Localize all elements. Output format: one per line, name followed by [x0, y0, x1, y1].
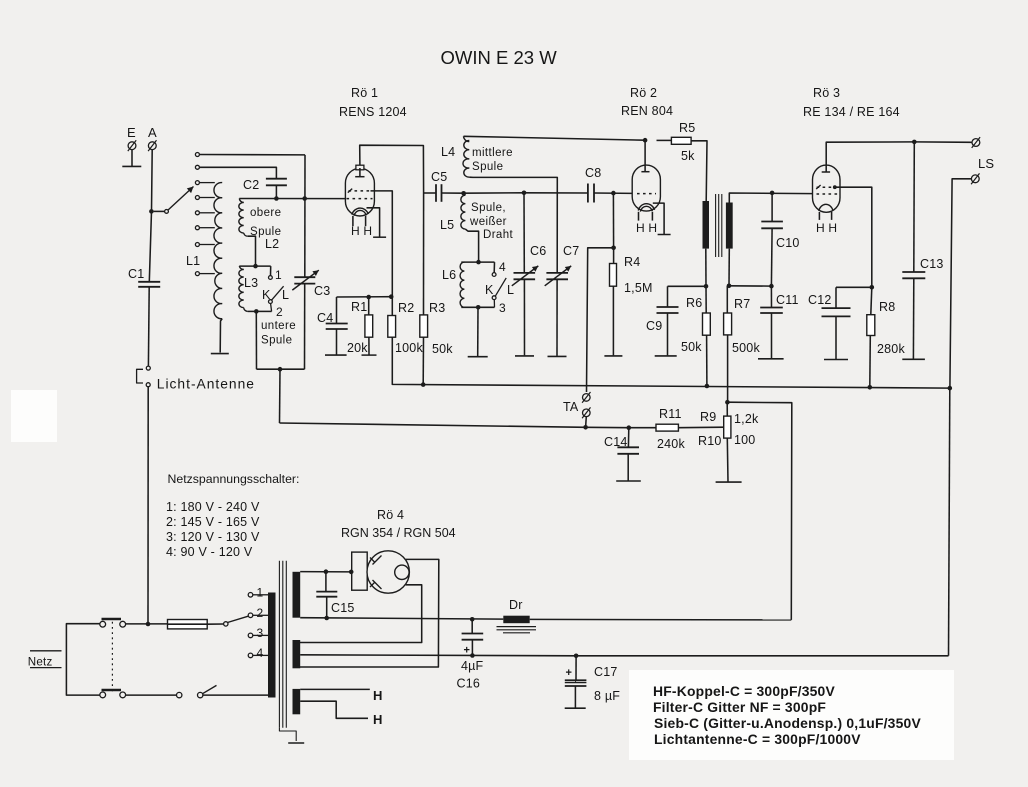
- svg-text:R2: R2: [398, 301, 414, 315]
- svg-text:R3: R3: [429, 301, 445, 315]
- svg-text:Spule,: Spule,: [471, 202, 506, 214]
- svg-text:RENS 1204: RENS 1204: [339, 105, 407, 119]
- svg-text:Netz: Netz: [28, 656, 53, 669]
- svg-text:Filter-C Gitter NF = 300pF: Filter-C Gitter NF = 300pF: [653, 699, 826, 715]
- svg-text:TA: TA: [563, 400, 579, 414]
- svg-text:L5: L5: [440, 218, 454, 232]
- svg-text:untere: untere: [261, 320, 296, 332]
- svg-text:20k: 20k: [347, 341, 368, 355]
- svg-text:1,2k: 1,2k: [734, 412, 759, 426]
- svg-text:C1: C1: [128, 267, 144, 281]
- svg-text:2: 2: [276, 305, 283, 319]
- svg-text:L6: L6: [442, 268, 456, 282]
- svg-text:50k: 50k: [681, 340, 702, 354]
- svg-text:100k: 100k: [395, 341, 423, 355]
- svg-text:C10: C10: [776, 236, 800, 250]
- svg-text:L4: L4: [441, 145, 455, 159]
- svg-text:E: E: [127, 125, 136, 140]
- svg-text:R8: R8: [879, 300, 895, 314]
- svg-text:280k: 280k: [877, 342, 905, 356]
- svg-text:C9: C9: [646, 319, 662, 333]
- svg-text:weißer: weißer: [469, 216, 507, 228]
- svg-text:1,5M: 1,5M: [624, 281, 653, 295]
- svg-text:3: 120 V - 130 V: 3: 120 V - 130 V: [166, 530, 260, 544]
- svg-text:C7: C7: [563, 244, 579, 258]
- svg-text:obere: obere: [250, 207, 281, 219]
- svg-text:Rö 3: Rö 3: [813, 86, 840, 100]
- svg-text:C13: C13: [920, 257, 944, 271]
- svg-text:R9: R9: [700, 410, 716, 424]
- svg-text:3: 3: [257, 626, 264, 640]
- svg-text:8 µF: 8 µF: [594, 689, 620, 703]
- svg-text:4: 4: [257, 646, 264, 660]
- svg-text:Dr: Dr: [509, 598, 523, 612]
- svg-text:R1: R1: [351, 300, 367, 314]
- svg-text:50k: 50k: [432, 342, 453, 356]
- svg-text:C12: C12: [808, 293, 832, 307]
- svg-text:C11: C11: [776, 293, 799, 307]
- svg-text:4: 4: [499, 260, 506, 274]
- svg-text:+: +: [566, 667, 573, 679]
- svg-text:2: 145 V - 165 V: 2: 145 V - 165 V: [166, 515, 260, 529]
- svg-text:Rö 2: Rö 2: [630, 86, 657, 100]
- svg-text:H: H: [373, 712, 383, 727]
- svg-text:Spule: Spule: [472, 161, 503, 173]
- svg-text:R11: R11: [659, 407, 682, 421]
- svg-text:Sieb-C (Gitter-u.Anodensp.) 0,: Sieb-C (Gitter-u.Anodensp.) 0,1uF/350V: [654, 715, 921, 731]
- svg-text:HF-Koppel-C = 300pF/350V: HF-Koppel-C = 300pF/350V: [653, 683, 835, 699]
- svg-text:C6: C6: [530, 244, 546, 258]
- svg-text:RE 134 / RE 164: RE 134 / RE 164: [803, 105, 900, 119]
- svg-text:1: 1: [275, 268, 282, 282]
- svg-text:C15: C15: [331, 601, 355, 615]
- svg-text:L3: L3: [244, 276, 258, 290]
- svg-text:L: L: [282, 288, 289, 302]
- svg-text:2: 2: [257, 606, 264, 620]
- svg-text:Lichtantenne-C = 300pF/1000V: Lichtantenne-C = 300pF/1000V: [654, 731, 861, 747]
- svg-text:OWIN E 23 W: OWIN E 23 W: [441, 47, 558, 68]
- svg-text:1: 1: [257, 585, 264, 599]
- svg-text:Rö 1: Rö 1: [351, 86, 378, 100]
- svg-text:H H: H H: [816, 221, 837, 235]
- svg-text:Draht: Draht: [483, 229, 514, 241]
- svg-text:Netzspannungsschalter:: Netzspannungsschalter:: [168, 472, 300, 486]
- svg-text:500k: 500k: [732, 341, 760, 355]
- svg-text:K: K: [485, 283, 494, 297]
- svg-text:4: 90 V - 120 V: 4: 90 V - 120 V: [166, 545, 253, 559]
- svg-text:5k: 5k: [681, 149, 695, 163]
- svg-text:C17: C17: [594, 665, 618, 679]
- svg-text:H H: H H: [351, 224, 372, 238]
- svg-text:Licht-Antenne: Licht-Antenne: [157, 377, 255, 392]
- svg-text:R10: R10: [698, 434, 722, 448]
- svg-text:Rö 4: Rö 4: [377, 508, 404, 522]
- svg-text:L1: L1: [186, 254, 200, 268]
- svg-text:C16: C16: [457, 677, 481, 691]
- svg-text:RGN 354 / RGN 504: RGN 354 / RGN 504: [341, 526, 456, 540]
- svg-text:100: 100: [734, 433, 755, 447]
- svg-text:R7: R7: [734, 297, 750, 311]
- svg-text:240k: 240k: [657, 437, 685, 451]
- svg-text:mittlere: mittlere: [472, 147, 513, 159]
- svg-text:H: H: [373, 688, 383, 703]
- svg-text:REN 804: REN 804: [621, 104, 673, 118]
- svg-text:C2: C2: [243, 178, 259, 192]
- svg-text:C8: C8: [585, 166, 601, 180]
- svg-text:Spule: Spule: [261, 335, 292, 347]
- svg-text:3: 3: [499, 301, 506, 315]
- svg-text:R4: R4: [624, 255, 640, 269]
- svg-text:H H: H H: [636, 221, 657, 235]
- svg-text:C5: C5: [431, 170, 447, 184]
- svg-text:C3: C3: [314, 284, 330, 298]
- svg-text:4µF: 4µF: [461, 659, 484, 673]
- svg-text:1: 180 V - 240 V: 1: 180 V - 240 V: [166, 500, 260, 514]
- svg-text:R5: R5: [679, 121, 695, 135]
- svg-text:L2: L2: [265, 237, 279, 251]
- svg-text:A: A: [148, 125, 157, 140]
- svg-text:LS: LS: [978, 156, 994, 171]
- svg-text:R6: R6: [686, 296, 702, 310]
